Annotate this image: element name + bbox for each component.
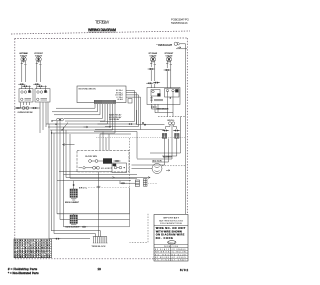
wires EOC to center box bbox=[99, 134, 101, 150]
wire pin3 bbox=[54, 104, 100, 115]
infinite switch 1 bbox=[19, 86, 33, 106]
svg-text:13: 13 bbox=[98, 267, 102, 271]
wire bus to bake area bbox=[141, 129, 165, 131]
svg-text:WIRING DIAGRAM: WIRING DIAGRAM bbox=[88, 28, 116, 32]
svg-text:CLOCK 120V: CLOCK 120V bbox=[85, 156, 98, 158]
oven control center box bbox=[77, 150, 129, 172]
svg-text:SURF UNIT: SURF UNIT bbox=[165, 55, 173, 57]
svg-text:TERM BLOCK: TERM BLOCK bbox=[92, 246, 107, 248]
chassis dashed corner bbox=[130, 214, 149, 243]
svg-text:YL YELLOW: YL YELLOW bbox=[172, 252, 186, 254]
wire oven light to right rail bbox=[185, 44, 187, 214]
svg-text:BAKE ELEMENT: BAKE ELEMENT bbox=[66, 226, 81, 229]
svg-text:FRIG: FRIG bbox=[168, 242, 175, 244]
wire pin2 bbox=[52, 104, 98, 112]
svg-text:BROIL ELEMENT: BROIL ELEMENT bbox=[65, 202, 80, 204]
wire to motor bbox=[136, 132, 138, 159]
wire into switch 2 bbox=[36, 85, 38, 89]
svg-text:PK PINK: PK PINK bbox=[155, 260, 170, 262]
diagram dashed border right bbox=[186, 38, 188, 258]
door switch chain bbox=[14, 102, 40, 114]
interlock switch box bbox=[165, 89, 180, 99]
svg-text:5995553243: 5995553243 bbox=[171, 21, 188, 25]
svg-text:ELECTRONIC OVEN CTRL: ELECTRONIC OVEN CTRL bbox=[79, 88, 97, 90]
chassis dotted line bbox=[96, 137, 186, 139]
svg-text:FOR LOCAL INSPECTOR USE: FOR LOCAL INSPECTOR USE bbox=[160, 222, 183, 225]
svg-text:BROIL: BROIL bbox=[79, 188, 88, 190]
disconnect plug lower center bbox=[119, 182, 126, 184]
junction dots harness bbox=[51, 120, 63, 133]
svg-text:DLB RELAY: DLB RELAY bbox=[109, 118, 120, 121]
wire pair from receptacle C bbox=[150, 64, 152, 67]
wires from switch 2 down bbox=[39, 102, 41, 133]
terminal block comb bbox=[92, 237, 108, 248]
EOC right-side wires down bbox=[100, 91, 135, 122]
wire to bake element bbox=[60, 219, 70, 221]
surface unit receptacle B (left front) bbox=[34, 53, 43, 64]
svg-text:BROIL: BROIL bbox=[168, 120, 176, 122]
left wire bundle down bbox=[48, 124, 50, 239]
diagram dashed border left bbox=[14, 39, 16, 240]
nested wire corners to center bbox=[132, 138, 165, 165]
wire top right to border bbox=[176, 48, 187, 50]
svg-text:ELEMENT: ELEMENT bbox=[163, 157, 173, 159]
arrowed wire lower center bbox=[66, 177, 150, 179]
wire pair from receptacle A bbox=[21, 64, 23, 82]
disconnect plugs B bbox=[33, 83, 40, 85]
brand oval logo bbox=[168, 241, 176, 244]
svg-text:WH WHITE: WH WHITE bbox=[155, 252, 170, 254]
svg-text:NO. CODE: NO. CODE bbox=[156, 236, 173, 240]
wires latch area down bbox=[167, 97, 169, 116]
element plug L bbox=[162, 133, 166, 138]
plug block lower center 2 bbox=[143, 179, 147, 187]
svg-text:TEF351W: TEF351W bbox=[95, 20, 110, 25]
wire pin1 bbox=[56, 104, 95, 108]
plug block lower center bbox=[135, 180, 139, 186]
chassis dashed with arrow bbox=[162, 165, 186, 167]
wire pair from receptacle B bbox=[36, 64, 38, 82]
svg-text:SURF UNIT: SURF UNIT bbox=[20, 55, 28, 57]
element plug R bbox=[175, 133, 179, 138]
disconnect plug broil R bbox=[173, 129, 180, 131]
wire into latch box bbox=[150, 84, 152, 88]
cut line (dashed, slight slope) bbox=[11, 31, 190, 34]
arrowed stub mid harness bbox=[62, 144, 74, 146]
svg-text:* = Non-Illustrated Parts: * = Non-Illustrated Parts bbox=[8, 271, 39, 275]
bus wires under EOC bbox=[94, 131, 137, 133]
svg-text:HI-LIMIT: HI-LIMIT bbox=[101, 168, 113, 170]
harness connector pair bbox=[57, 118, 64, 121]
wire pin5 bbox=[65, 104, 105, 121]
long wires to lower right bbox=[59, 171, 112, 173]
wire pin4 bbox=[64, 104, 103, 118]
svg-text:BK BLACK: BK BLACK bbox=[155, 248, 170, 251]
sensor wires right bbox=[152, 108, 168, 110]
wire pin9 bbox=[52, 104, 116, 133]
svg-text:SURF UNIT: SURF UNIT bbox=[149, 55, 157, 57]
dashed oven outline top bbox=[158, 116, 186, 118]
electronic oven control EOC bbox=[77, 86, 129, 103]
broil element terminals bbox=[166, 120, 177, 129]
svg-text:SURF UNIT: SURF UNIT bbox=[35, 55, 43, 57]
wire pin6 bbox=[46, 104, 108, 124]
svg-text:GY GRAY: GY GRAY bbox=[172, 259, 187, 262]
wires to lower elements bbox=[70, 177, 137, 179]
disconnect plug broil L bbox=[162, 129, 169, 131]
svg-text:IMPORTANT: IMPORTANT bbox=[163, 217, 180, 220]
motor bbox=[152, 161, 162, 174]
surface unit receptacle A (left rear) bbox=[19, 52, 28, 64]
diagonal harness jog bbox=[62, 123, 68, 131]
svg-text:OVEN SENSOR: OVEN SENSOR bbox=[156, 109, 169, 111]
svg-text:MOTOR: MOTOR bbox=[153, 161, 162, 163]
door lock switch box bbox=[112, 163, 127, 173]
surface unit receptacle C (right rear) bbox=[149, 52, 158, 64]
svg-text:OVEN DOOR SW: OVEN DOOR SW bbox=[18, 112, 33, 114]
svg-text:* OVEN LIGHT: * OVEN LIGHT bbox=[157, 44, 173, 47]
oven outline box bbox=[57, 188, 130, 214]
oven light bbox=[157, 42, 186, 48]
junction dots bus bbox=[109, 122, 144, 128]
infinite switch 2 bbox=[35, 86, 50, 103]
svg-text:OR ORANGE: OR ORANGE bbox=[172, 248, 187, 251]
wire pin8 bbox=[50, 104, 113, 130]
diagram dashed border bottom bbox=[15, 258, 156, 260]
wire pin7 bbox=[48, 104, 110, 127]
parts warning box bbox=[154, 215, 188, 262]
table cell text bbox=[15, 240, 51, 258]
disconnect plugs A bbox=[18, 83, 25, 85]
bake element E2 bbox=[70, 214, 77, 225]
EOC connector P1 comb bbox=[94, 100, 116, 104]
ground wire to terminal block bbox=[98, 172, 100, 237]
svg-text:RD RED: RD RED bbox=[155, 254, 170, 256]
diagram dashed border top bbox=[15, 37, 189, 40]
latch switch assembly box bbox=[147, 88, 180, 105]
wire motor left bbox=[132, 168, 153, 170]
wire pair from receptacle D bbox=[166, 64, 168, 68]
surface unit receptacle D (right front) bbox=[165, 53, 174, 64]
dotted leader lower center bbox=[149, 182, 158, 184]
svg-text:# = Fieldwiring Parts: # = Fieldwiring Parts bbox=[8, 267, 38, 271]
svg-text:8/02: 8/02 bbox=[180, 268, 188, 272]
lower harness wires bbox=[64, 226, 82, 228]
svg-text:GD A-N: GD A-N bbox=[117, 98, 124, 101]
arrow to P2 bbox=[84, 126, 89, 128]
latch pivot mark bbox=[152, 106, 154, 108]
broil element E1 bbox=[70, 181, 77, 200]
wire color code table bbox=[14, 239, 52, 258]
wire into switch 1 bbox=[21, 85, 23, 89]
